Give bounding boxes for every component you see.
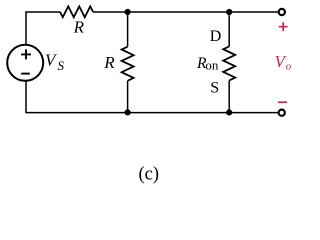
voltage source VS	[7, 45, 43, 81]
wire top from R1 to node A	[93, 11, 128, 13]
wire top from node A to node B	[128, 11, 229, 13]
wire stub resistor R2 to bottom node C	[127, 81, 129, 113]
plus polarity mark (red)	[279, 22, 288, 31]
svg-text:D: D	[210, 28, 222, 45]
node B junction dot (top right)	[226, 9, 232, 15]
wire bottom from node D2 to output terminal	[229, 112, 278, 114]
wire stub node B down to resistor Ron	[228, 12, 230, 46]
svg-text:R: R	[103, 53, 115, 72]
plus sign inside VS	[21, 49, 31, 59]
terminal (bottom output, open circle)	[279, 110, 285, 116]
terminal (top output, open circle)	[279, 9, 285, 15]
svg-text:S: S	[58, 58, 65, 73]
node A junction dot (top middle)	[125, 9, 131, 15]
svg-text:on: on	[205, 58, 219, 73]
minus sign inside VS	[21, 73, 30, 75]
minus polarity mark (red)	[278, 101, 287, 103]
wire bottom from node C to node D2	[128, 112, 229, 114]
wire stub resistor Ron to bottom node D2	[228, 81, 230, 113]
resistor R1 (top horizontal) zigzag	[60, 6, 93, 17]
resistor Ron (right vertical) zigzag	[223, 46, 235, 80]
resistor R2 (middle vertical) zigzag	[122, 47, 134, 81]
node D2 junction dot (bottom right)	[226, 109, 232, 115]
svg-text:o: o	[286, 60, 292, 72]
wire top from node B to output terminal	[229, 11, 278, 13]
svg-text:R: R	[73, 17, 85, 36]
wire stub node A down to resistor R2	[127, 12, 129, 47]
svg-text:S: S	[210, 80, 219, 97]
svg-text:(c): (c)	[139, 165, 160, 185]
wire from VS bottom to bottom-left corner	[26, 81, 128, 113]
node C junction dot (bottom middle)	[125, 109, 131, 115]
wire top-left corner from source to resistor R1	[26, 12, 60, 45]
